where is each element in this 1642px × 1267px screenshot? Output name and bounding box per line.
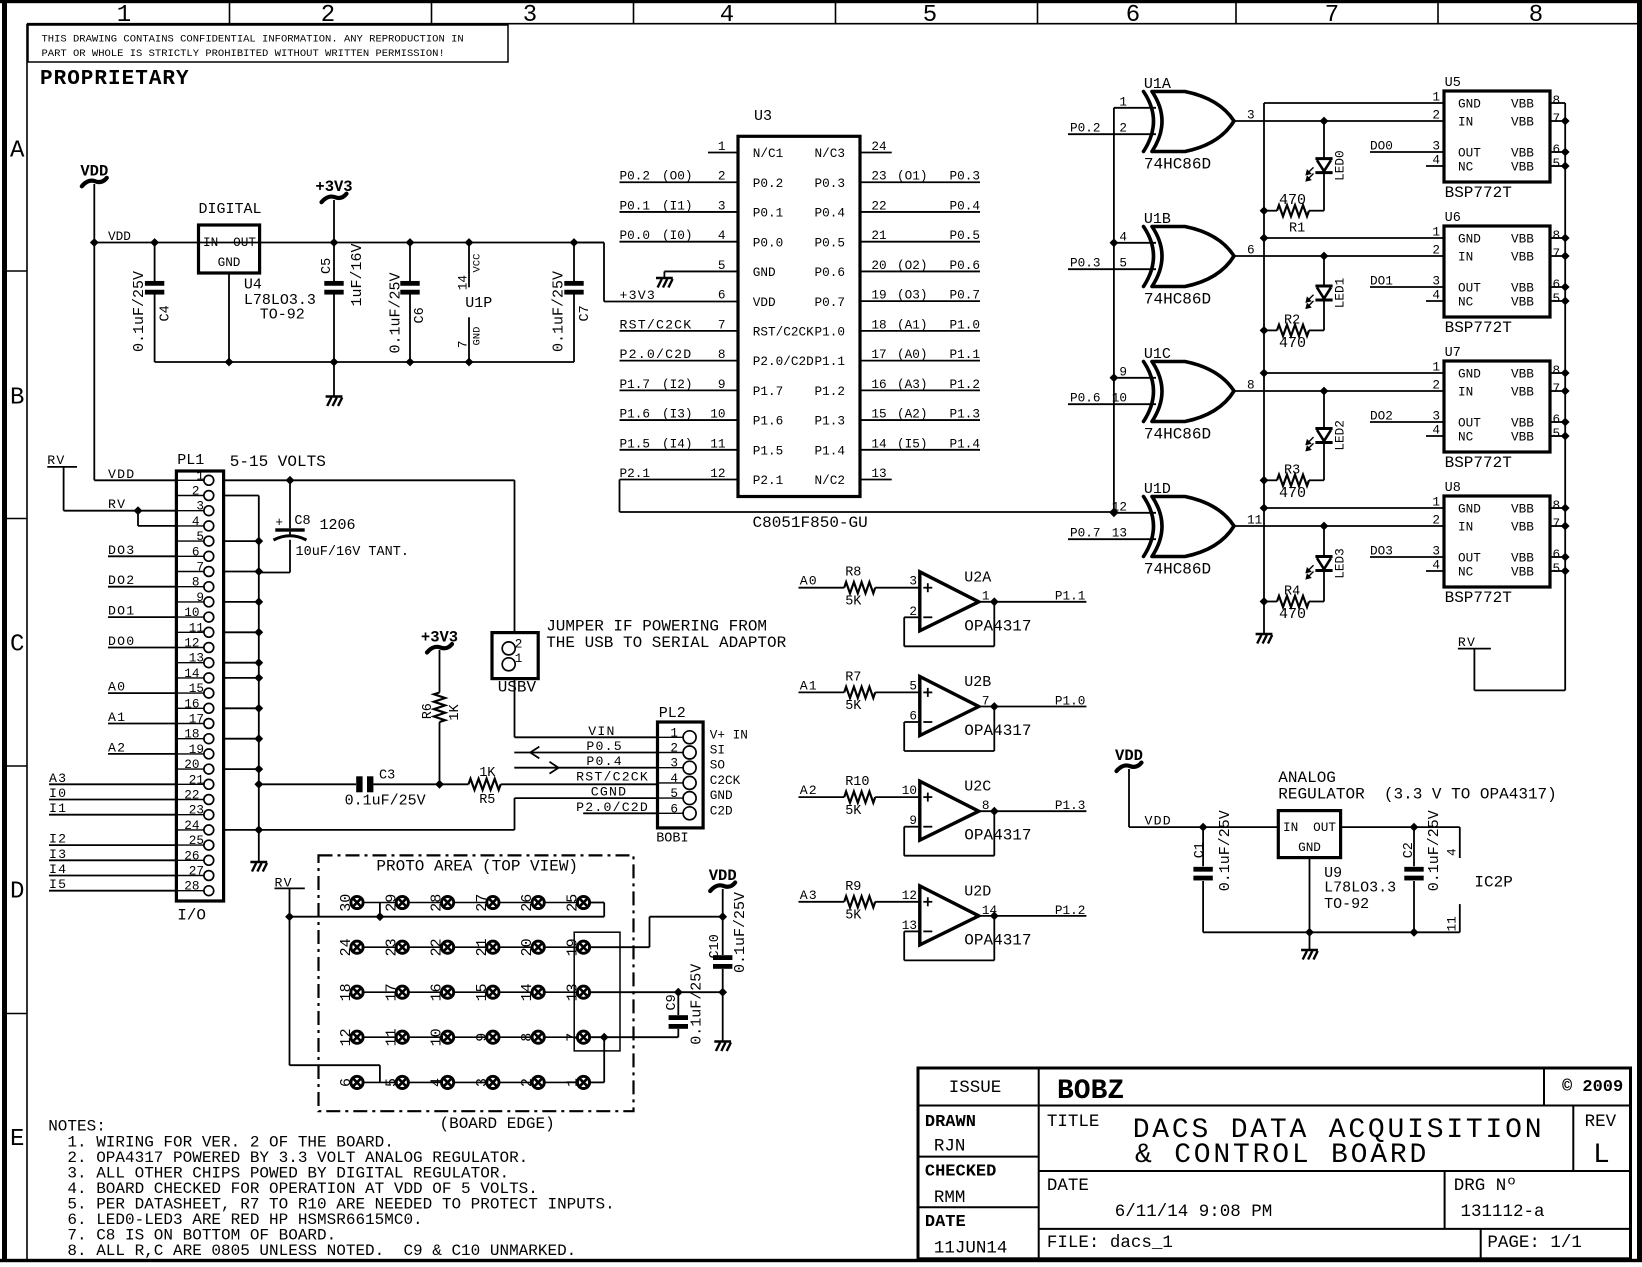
svg-text:28: 28 xyxy=(184,879,199,894)
PL1 pin 9 ground wire xyxy=(224,601,259,603)
svg-text:GND: GND xyxy=(1458,232,1481,247)
svg-text:DO2: DO2 xyxy=(1370,409,1393,424)
capacitor C7 xyxy=(570,238,579,247)
svg-text:1: 1 xyxy=(718,139,726,154)
svg-text:8: 8 xyxy=(1553,498,1561,513)
proto pad 28 xyxy=(442,896,454,908)
svg-text:20: 20 xyxy=(184,757,199,772)
svg-text:U1D: U1D xyxy=(1144,481,1171,498)
svg-text:0.1uF/25V: 0.1uF/25V xyxy=(551,271,568,352)
svg-text:9: 9 xyxy=(718,377,726,392)
svg-text:N/C2: N/C2 xyxy=(815,473,845,488)
svg-text:USBV: USBV xyxy=(498,679,537,697)
op-amp U2D OPA4317 xyxy=(920,886,979,945)
svg-text:5: 5 xyxy=(1553,426,1561,441)
capacitor C1 xyxy=(1199,823,1208,832)
svg-text:U2B: U2B xyxy=(964,674,991,691)
wire VDD rail horizontal xyxy=(94,242,604,244)
svg-text:(O3): (O3) xyxy=(897,288,927,303)
svg-text:4: 4 xyxy=(1119,229,1127,244)
svg-text:2: 2 xyxy=(718,169,726,184)
svg-text:VDD: VDD xyxy=(80,162,108,180)
PL2 pin5 CGND wire xyxy=(515,797,658,799)
PL1 pin 7 ground wire xyxy=(224,571,259,573)
svg-text:P0.1: P0.1 xyxy=(620,198,650,213)
svg-text:NC: NC xyxy=(1458,565,1474,580)
connector PL2 box xyxy=(658,722,704,828)
LED LED0 xyxy=(1323,121,1325,159)
U3 pin 13 stub xyxy=(860,479,892,481)
svg-text:8: 8 xyxy=(192,575,200,590)
svg-text:17: 17 xyxy=(871,347,886,362)
U8 pin3 wire net DO3 xyxy=(1370,556,1444,558)
svg-text:R8: R8 xyxy=(845,566,861,581)
svg-text:GND: GND xyxy=(218,255,241,270)
svg-text:1K: 1K xyxy=(479,766,496,781)
svg-text:1206: 1206 xyxy=(320,517,356,534)
svg-text:SI: SI xyxy=(710,743,725,758)
RV wire down to proto row5 xyxy=(289,917,291,1065)
PL1 pin 25 wire net I2 xyxy=(49,844,176,846)
svg-text:3: 3 xyxy=(909,574,917,589)
U1D input wires xyxy=(1114,512,1156,514)
XOR gate U1C 74HC86D xyxy=(1144,362,1154,422)
U6 VBB pin stubs xyxy=(1550,237,1565,239)
svg-text:470: 470 xyxy=(1279,606,1306,623)
svg-text:30: 30 xyxy=(338,894,355,912)
svg-text:DATE: DATE xyxy=(925,1213,966,1232)
svg-text:13: 13 xyxy=(565,983,582,1001)
XOR gate U1A 74HC86D xyxy=(1144,92,1154,152)
svg-text:PART OR WHOLE IS STRICTLY PROH: PART OR WHOLE IS STRICTLY PROHIBITED WIT… xyxy=(42,48,445,60)
svg-text:12: 12 xyxy=(902,888,917,903)
PL2 pin 5 xyxy=(683,792,696,805)
svg-text:VDD: VDD xyxy=(709,867,737,885)
svg-text:U1A: U1A xyxy=(1144,76,1171,93)
PL2 pin 2 xyxy=(683,746,696,759)
wire VDD symbol to rail xyxy=(93,184,95,243)
PL1 pin 11 ground wire xyxy=(224,631,259,633)
svg-text:C2: C2 xyxy=(1402,842,1417,858)
svg-text:21: 21 xyxy=(474,938,491,956)
wire pad1 up to pad7 row xyxy=(603,1037,605,1082)
svg-text:470: 470 xyxy=(1279,485,1306,502)
svg-text:2: 2 xyxy=(192,484,200,499)
PL2 pin 3 xyxy=(683,761,696,774)
U2A feedback loop xyxy=(904,616,920,618)
connector PL1 box xyxy=(176,471,223,901)
svg-text:C5: C5 xyxy=(320,258,335,274)
svg-text:R10: R10 xyxy=(845,775,869,790)
svg-text:E: E xyxy=(10,1126,24,1153)
proto area dash-dot border xyxy=(319,855,634,1111)
wire USBV pin1 to PL2 VIN xyxy=(514,679,516,738)
svg-text:L78LO3.3: L78LO3.3 xyxy=(1324,879,1396,896)
proto pad 29 xyxy=(396,896,408,908)
RV wire to proto row1 xyxy=(289,888,291,916)
PL1 pin 26 wire net I3 xyxy=(49,859,176,861)
svg-text:L: L xyxy=(1593,1140,1610,1171)
svg-text:11: 11 xyxy=(1445,916,1460,931)
U3 pin 17 wire, net P1.1 xyxy=(860,360,980,362)
title block grid lines xyxy=(1038,1068,1040,1259)
svg-text:17: 17 xyxy=(189,712,204,727)
svg-text:NC: NC xyxy=(1458,430,1474,445)
PL1 pin 18 ground wire xyxy=(224,738,259,740)
svg-text:OUT: OUT xyxy=(1458,551,1481,566)
svg-text:25: 25 xyxy=(565,894,582,912)
svg-text:P1.1: P1.1 xyxy=(815,354,845,369)
svg-text:(A3): (A3) xyxy=(897,377,927,392)
power pins U1P of 74HC86 xyxy=(465,238,474,247)
proto pad 23 xyxy=(396,941,408,953)
PL2 pin6 stub wire xyxy=(583,812,657,814)
svg-text:470: 470 xyxy=(1279,335,1306,352)
svg-text:PROTO AREA (TOP VIEW): PROTO AREA (TOP VIEW) xyxy=(376,858,578,876)
U8 VBB pin stubs xyxy=(1550,507,1565,509)
svg-text:C: C xyxy=(10,632,24,659)
svg-text:U2A: U2A xyxy=(964,569,991,586)
svg-text:REGULATOR (3.3 V TO OPA4317): REGULATOR (3.3 V TO OPA4317) xyxy=(1278,786,1556,804)
column ticks top xyxy=(229,0,231,24)
svg-text:VBB: VBB xyxy=(1511,385,1534,400)
svg-text:12: 12 xyxy=(710,466,725,481)
svg-text:16: 16 xyxy=(184,696,199,711)
svg-text:VBB: VBB xyxy=(1511,295,1534,310)
svg-text:14: 14 xyxy=(456,275,471,290)
U3 pin 19 wire, net P0.7 xyxy=(860,300,980,302)
svg-text:IN: IN xyxy=(203,235,218,250)
svg-text:R5: R5 xyxy=(479,793,495,808)
svg-text:P0.6: P0.6 xyxy=(815,265,845,280)
proto pad 9 xyxy=(487,1031,499,1043)
svg-text:A1: A1 xyxy=(108,710,126,725)
svg-text:7: 7 xyxy=(456,341,471,349)
proto pad 15 xyxy=(487,986,499,998)
svg-text:74HC86D: 74HC86D xyxy=(1144,291,1211,309)
svg-text:DATE: DATE xyxy=(1047,1176,1089,1196)
svg-text:15: 15 xyxy=(871,407,886,422)
svg-text:VBB: VBB xyxy=(1511,416,1534,431)
wire R7 to op-amp xyxy=(875,691,920,693)
svg-text:VBB: VBB xyxy=(1511,115,1534,130)
driver U7 BSP772T box xyxy=(1444,361,1550,452)
svg-text:& CONTROL BOARD: & CONTROL BOARD xyxy=(1135,1140,1429,1171)
U3 pin 24 stub xyxy=(860,152,892,154)
svg-text:7: 7 xyxy=(718,317,726,332)
svg-text:VBB: VBB xyxy=(1511,565,1534,580)
svg-text:2: 2 xyxy=(1432,108,1440,123)
svg-text:2: 2 xyxy=(1432,378,1440,393)
wire OUT to C2 and pin4 xyxy=(1341,826,1460,828)
svg-text:VBB: VBB xyxy=(1511,281,1534,296)
U3 pin 4 wire, net P0.0 xyxy=(620,241,739,243)
svg-text:R3: R3 xyxy=(1284,464,1300,479)
svg-text:VBB: VBB xyxy=(1511,160,1534,175)
wire +3V3 to rail xyxy=(333,200,335,243)
svg-text:25: 25 xyxy=(189,833,204,848)
svg-text:4: 4 xyxy=(1432,153,1440,168)
U3 pin 9 wire, net P1.7 xyxy=(620,389,739,391)
page border frame xyxy=(0,0,1642,3)
PL1 pin 23 wire net I1 xyxy=(49,814,176,816)
svg-text:1: 1 xyxy=(1432,360,1440,375)
svg-text:1K: 1K xyxy=(448,703,463,720)
svg-text:A1: A1 xyxy=(800,678,818,693)
svg-text:5-15 VOLTS: 5-15 VOLTS xyxy=(230,453,326,471)
U1C input wires xyxy=(1114,377,1156,379)
resistor R1 470 xyxy=(1309,210,1324,212)
svg-text:4: 4 xyxy=(1432,558,1440,573)
svg-text:BSP772T: BSP772T xyxy=(1445,184,1512,202)
U6 pin1 wire to ground bus xyxy=(1264,237,1444,239)
proto pad 8 xyxy=(532,1031,544,1043)
svg-text:5: 5 xyxy=(923,2,937,29)
svg-text:470: 470 xyxy=(1279,192,1306,209)
svg-text:3: 3 xyxy=(1432,139,1440,154)
svg-text:TITLE: TITLE xyxy=(1047,1112,1100,1132)
proto pad 25 xyxy=(577,896,589,908)
svg-text:A3: A3 xyxy=(49,771,67,786)
svg-text:P0.0: P0.0 xyxy=(753,235,783,250)
svg-text:P1.0: P1.0 xyxy=(950,317,980,332)
jumper USBV box xyxy=(492,633,538,679)
proto pad 19 xyxy=(577,941,589,953)
svg-text:12: 12 xyxy=(338,1028,355,1046)
svg-text:4: 4 xyxy=(1432,288,1440,303)
svg-text:0.1uF/25V: 0.1uF/25V xyxy=(1217,810,1234,891)
wire net P2.1 from U3 pin 12 to U1D xyxy=(619,480,621,512)
svg-text:P0.2: P0.2 xyxy=(620,169,650,184)
svg-text:U1B: U1B xyxy=(1144,211,1171,228)
svg-text:26: 26 xyxy=(184,848,199,863)
svg-text:GND: GND xyxy=(753,265,776,280)
svg-text:B: B xyxy=(10,385,24,412)
capacitor C10 0.1uF xyxy=(722,889,724,955)
svg-text:P1.3: P1.3 xyxy=(950,407,980,422)
proto pad 21 xyxy=(487,941,499,953)
svg-text:5: 5 xyxy=(1119,256,1127,271)
svg-text:RJN: RJN xyxy=(934,1137,966,1157)
svg-text:VBB: VBB xyxy=(1511,551,1534,566)
wire pad19 to VDD/C10 xyxy=(591,946,650,948)
svg-text:P0.3: P0.3 xyxy=(815,176,845,191)
svg-text:7: 7 xyxy=(1553,111,1561,126)
proto pad 22 xyxy=(442,941,454,953)
svg-text:15: 15 xyxy=(189,681,204,696)
svg-text:P0.7: P0.7 xyxy=(1070,526,1100,541)
svg-text:8: 8 xyxy=(982,798,990,813)
svg-text:6: 6 xyxy=(1553,142,1561,157)
svg-text:CHECKED: CHECKED xyxy=(925,1163,996,1182)
svg-text:8: 8 xyxy=(1553,93,1561,108)
svg-text:DO1: DO1 xyxy=(1370,274,1393,289)
svg-text:8: 8 xyxy=(519,1033,536,1042)
proto pad 7 xyxy=(577,1031,589,1043)
proto pad 26 xyxy=(532,896,544,908)
PL1 pin 13 ground wire xyxy=(224,662,259,664)
svg-text:7: 7 xyxy=(1325,2,1339,29)
svg-text:P2.0/C2D: P2.0/C2D xyxy=(753,354,814,369)
proto pad 24 xyxy=(351,941,363,953)
svg-text:0.1uF/25V: 0.1uF/25V xyxy=(689,964,706,1045)
svg-text:P1.3: P1.3 xyxy=(1055,798,1085,813)
PL1 pin 10 wire net DO1 xyxy=(108,616,176,618)
svg-text:21: 21 xyxy=(871,228,886,243)
svg-text:P0.3: P0.3 xyxy=(1070,256,1100,271)
resistor R8 5K xyxy=(844,582,875,593)
svg-text:P1.7: P1.7 xyxy=(620,377,650,392)
svg-text:JUMPER IF POWERING FROM: JUMPER IF POWERING FROM xyxy=(546,618,767,636)
svg-text:C1: C1 xyxy=(1193,842,1208,858)
resistor R10 5K xyxy=(844,792,875,803)
svg-text:5: 5 xyxy=(670,786,678,801)
svg-text:I/O: I/O xyxy=(177,907,206,925)
capacitor C8 10uF tantalum xyxy=(289,480,291,528)
svg-text:22: 22 xyxy=(871,198,886,213)
svg-text:5: 5 xyxy=(1553,291,1561,306)
proto pad 5 xyxy=(396,1076,408,1088)
wire C3 to R5 xyxy=(373,783,468,785)
driver U5 BSP772T box xyxy=(1444,91,1550,182)
svg-text:1: 1 xyxy=(1432,495,1440,510)
driver U6 BSP772T box xyxy=(1444,226,1550,317)
svg-text:18: 18 xyxy=(184,727,199,742)
svg-text:VBB: VBB xyxy=(1511,146,1534,161)
svg-text:3: 3 xyxy=(523,2,537,29)
svg-text:(I2): (I2) xyxy=(662,377,692,392)
op-amp U2A OPA4317 xyxy=(920,572,979,631)
svg-text:27: 27 xyxy=(189,864,204,879)
svg-text:P0.5: P0.5 xyxy=(950,228,980,243)
U2D feedback loop xyxy=(904,930,920,932)
svg-text:(O0): (O0) xyxy=(662,169,692,184)
svg-text:C7: C7 xyxy=(578,305,593,321)
svg-text:0.1uF/25V: 0.1uF/25V xyxy=(388,272,405,353)
resistor R5 1K xyxy=(469,779,501,790)
svg-text:(I3): (I3) xyxy=(662,407,692,422)
svg-text:VBB: VBB xyxy=(1511,520,1534,535)
svg-text:IN: IN xyxy=(1458,115,1473,130)
svg-text:7: 7 xyxy=(1553,516,1561,531)
svg-text:(A0): (A0) xyxy=(897,347,927,362)
box around proto pads 19 13 7 xyxy=(574,932,620,1051)
svg-text:P1.3: P1.3 xyxy=(815,414,845,429)
svg-text:3: 3 xyxy=(196,499,204,514)
svg-text:6: 6 xyxy=(718,288,726,303)
proto pad 2 xyxy=(532,1076,544,1088)
svg-text:DO0: DO0 xyxy=(1370,139,1393,154)
svg-text:GND: GND xyxy=(1458,502,1481,517)
svg-text:23: 23 xyxy=(871,169,886,184)
svg-text:4: 4 xyxy=(1445,848,1460,856)
svg-text:P2.0/C2D: P2.0/C2D xyxy=(620,347,693,362)
resistor R4 470 xyxy=(1309,601,1324,603)
LED LED2 xyxy=(1323,391,1325,428)
proto pad 4 xyxy=(442,1076,454,1088)
svg-text:LED2: LED2 xyxy=(1333,420,1348,450)
PL1 pin 27 wire net I4 xyxy=(49,875,176,877)
svg-text:26: 26 xyxy=(519,894,536,912)
svg-text:P0.6: P0.6 xyxy=(1070,391,1100,406)
svg-text:DO1: DO1 xyxy=(108,604,135,619)
PL1 pin 1 wire to C8/USBV xyxy=(224,479,515,481)
svg-text:(I5): (I5) xyxy=(897,436,927,451)
power symbol VDD above C10 xyxy=(710,883,735,892)
proto pad 27 xyxy=(487,896,499,908)
svg-text:P0.3: P0.3 xyxy=(950,169,980,184)
svg-text:(I1): (I1) xyxy=(662,198,692,213)
PL1 pin 7 wire to C8 bottom xyxy=(259,572,290,574)
PL2 pin2 wire with arrow xyxy=(514,752,657,754)
svg-text:20: 20 xyxy=(519,938,536,956)
svg-text:P1.1: P1.1 xyxy=(1055,589,1085,604)
wire RV to VBB bus xyxy=(1473,649,1475,691)
svg-text:VBB: VBB xyxy=(1511,250,1534,265)
wire rail to U3 VDD pin 6 xyxy=(574,242,604,244)
svg-text:11: 11 xyxy=(1247,513,1262,528)
analog ground rail xyxy=(1203,931,1460,933)
ground bus for LED resistors xyxy=(1263,103,1265,634)
svg-text:DO0: DO0 xyxy=(108,634,135,649)
PL1 pin 17 wire net A1 xyxy=(108,723,176,725)
svg-text:4: 4 xyxy=(429,1078,446,1087)
svg-text:(BOARD EDGE): (BOARD EDGE) xyxy=(440,1115,555,1133)
svg-text:RST/C2CK: RST/C2CK xyxy=(620,317,693,332)
capacitor C3 0.1uF xyxy=(356,776,362,792)
svg-text:6: 6 xyxy=(338,1078,355,1087)
svg-text:1uF/16V: 1uF/16V xyxy=(349,243,366,306)
svg-text:11: 11 xyxy=(383,1028,400,1046)
U3 pin 3 wire, net P0.1 xyxy=(620,211,739,213)
svg-text:9: 9 xyxy=(1119,364,1127,379)
svg-text:7: 7 xyxy=(982,693,990,708)
U2B output wire net P1.0 xyxy=(979,706,1087,708)
svg-text:OPA4317: OPA4317 xyxy=(964,931,1031,949)
capacitor C6 xyxy=(406,238,415,247)
svg-text:2: 2 xyxy=(1119,121,1127,136)
U3 pin 10 wire, net P1.6 xyxy=(620,419,739,421)
svg-text:A0: A0 xyxy=(108,680,126,695)
svg-text:2: 2 xyxy=(519,1078,536,1087)
svg-text:P0.4: P0.4 xyxy=(815,206,845,221)
svg-text:6: 6 xyxy=(192,544,200,559)
svg-text:+3V3: +3V3 xyxy=(315,178,352,196)
U7 pin3 wire net DO2 xyxy=(1370,421,1444,423)
U3 pin 23 wire, net P0.3 xyxy=(860,181,980,183)
proto pad 6 xyxy=(351,1076,363,1088)
svg-text:REV: REV xyxy=(1585,1112,1617,1132)
svg-text:PL1: PL1 xyxy=(177,452,204,469)
resistor R2 470 xyxy=(1309,329,1324,331)
svg-text:P0.0: P0.0 xyxy=(620,228,650,243)
svg-text:14: 14 xyxy=(982,903,997,918)
PL1 pin 6 wire net DO3 xyxy=(108,555,176,557)
svg-text:C10: C10 xyxy=(708,934,723,958)
svg-text:13: 13 xyxy=(189,651,204,666)
svg-text:GND: GND xyxy=(710,788,733,803)
svg-text:10uF/16V TANT.: 10uF/16V TANT. xyxy=(296,545,409,560)
svg-text:29: 29 xyxy=(383,894,400,912)
svg-text:VBB: VBB xyxy=(1511,502,1534,517)
proto pad 20 xyxy=(532,941,544,953)
microcontroller U3 box xyxy=(738,136,860,496)
svg-text:14: 14 xyxy=(519,983,536,1001)
svg-text:23: 23 xyxy=(189,803,204,818)
svg-text:U8: U8 xyxy=(1445,481,1461,496)
svg-text:C6: C6 xyxy=(413,307,428,323)
svg-text:P1.2: P1.2 xyxy=(950,377,980,392)
